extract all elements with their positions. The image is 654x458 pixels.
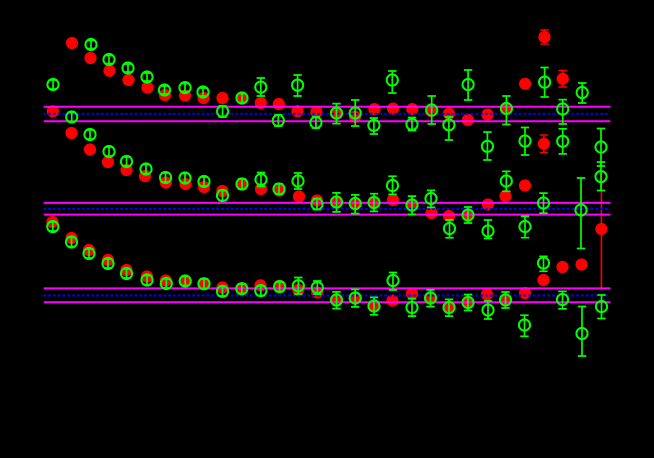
red data series: filled circle markers with error bars (3 panels) [540,30,602,288]
horizontal reference bands: magenta limit lines + blue dashed centre line [43,107,610,122]
green data series: open circle markers with error bars (3 panels) [49,41,606,357]
